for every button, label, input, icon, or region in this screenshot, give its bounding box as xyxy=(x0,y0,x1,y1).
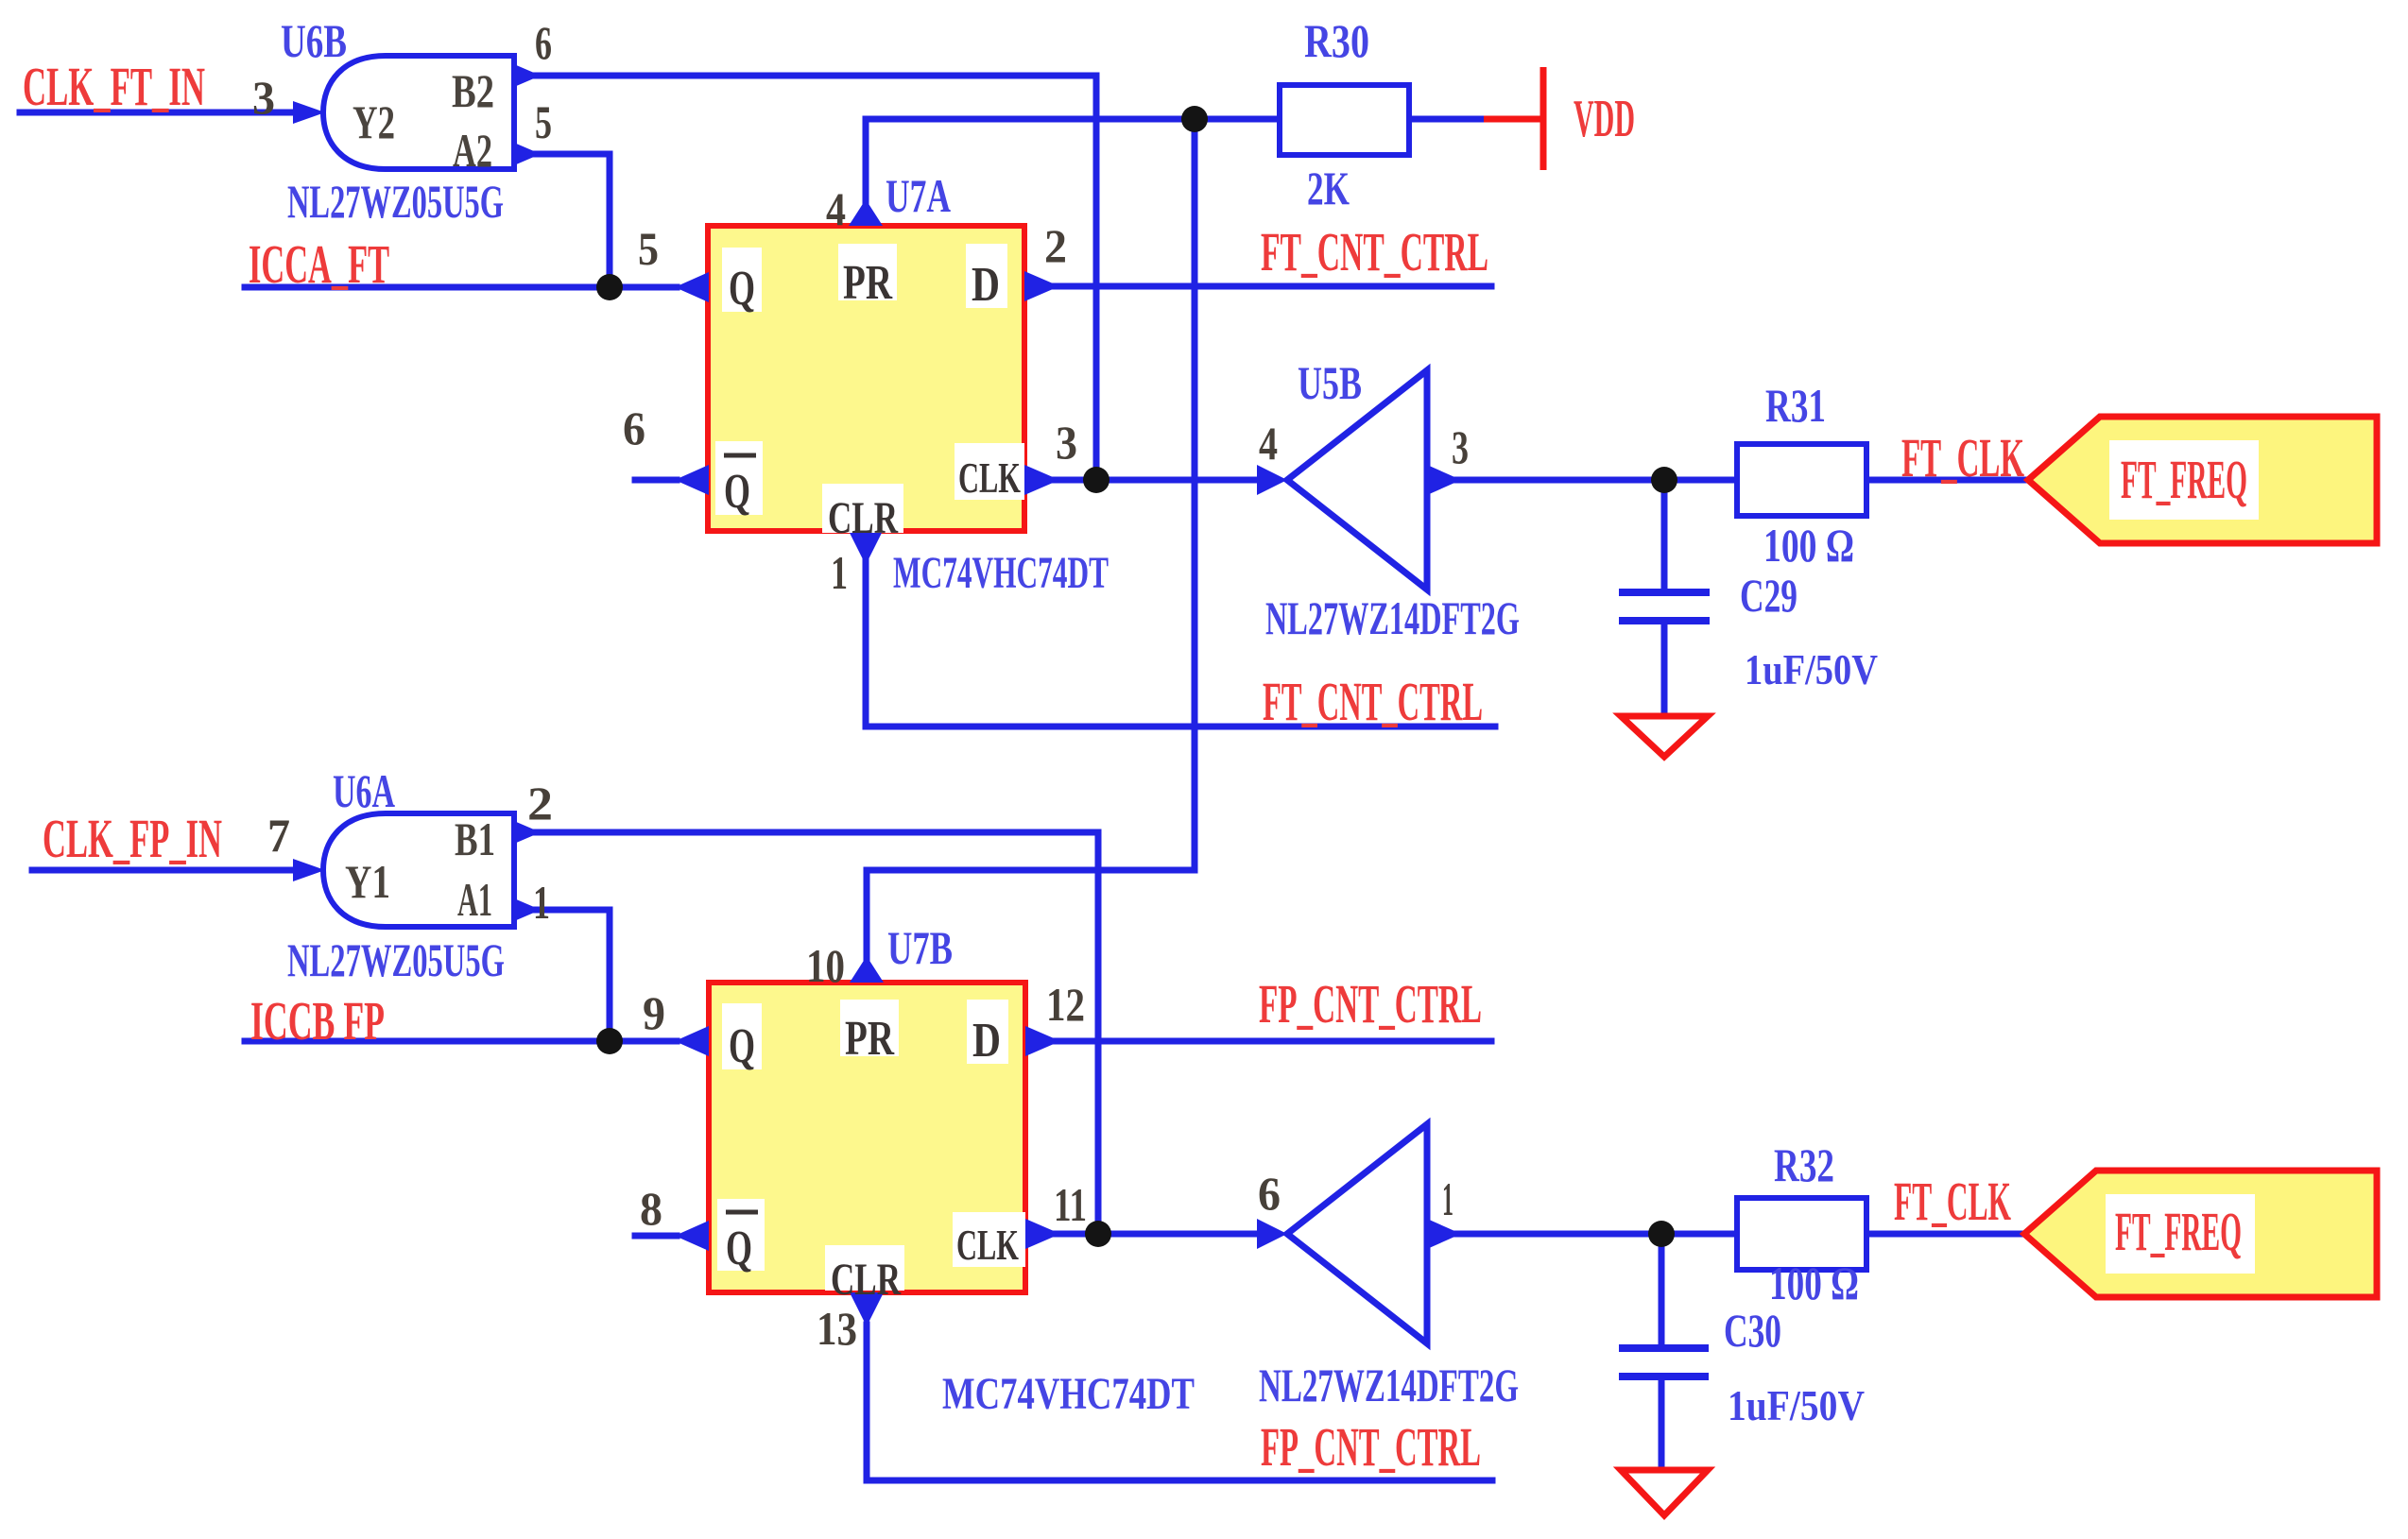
svg-text:1: 1 xyxy=(831,546,848,599)
svg-text:D: D xyxy=(972,1014,1001,1068)
svg-text:U6A: U6A xyxy=(333,764,395,817)
svg-text:6: 6 xyxy=(1258,1167,1281,1220)
svg-text:2: 2 xyxy=(527,777,553,829)
svg-text:CLK: CLK xyxy=(956,1221,1019,1269)
svg-text:U5B: U5B xyxy=(1298,356,1362,409)
svg-text:ICCB FP: ICCB FP xyxy=(250,990,385,1052)
svg-text:5: 5 xyxy=(638,222,659,275)
svg-text:100 Ω: 100 Ω xyxy=(1763,519,1854,572)
svg-text:2K: 2K xyxy=(1307,162,1350,214)
svg-text:B2: B2 xyxy=(452,64,494,117)
svg-text:FT_FREQ: FT_FREQ xyxy=(2115,1201,2242,1262)
svg-text:C30: C30 xyxy=(1724,1304,1781,1357)
svg-text:3: 3 xyxy=(1056,416,1077,469)
svg-text:Q: Q xyxy=(726,1222,752,1275)
svg-text:MC74VHC74DT: MC74VHC74DT xyxy=(942,1369,1195,1419)
svg-text:2: 2 xyxy=(1044,219,1067,272)
svg-text:Y2: Y2 xyxy=(353,95,395,148)
svg-text:11: 11 xyxy=(1054,1178,1087,1231)
svg-text:3: 3 xyxy=(1452,420,1469,473)
svg-text:C29: C29 xyxy=(1740,569,1797,622)
svg-text:R30: R30 xyxy=(1304,14,1369,67)
svg-text:FT_CLK: FT_CLK xyxy=(1894,1171,2011,1232)
svg-text:1: 1 xyxy=(1442,1172,1453,1225)
svg-text:PR: PR xyxy=(845,1012,895,1066)
svg-text:R31: R31 xyxy=(1765,379,1826,432)
svg-text:CLK_FT_IN: CLK_FT_IN xyxy=(23,56,205,117)
svg-text:CLK: CLK xyxy=(958,453,1021,502)
svg-text:6: 6 xyxy=(535,16,552,69)
svg-text:U7A: U7A xyxy=(886,169,951,222)
svg-text:100 Ω: 100 Ω xyxy=(1769,1257,1859,1309)
svg-text:R32: R32 xyxy=(1774,1138,1834,1191)
svg-text:VDD: VDD xyxy=(1574,90,1635,148)
svg-text:B1: B1 xyxy=(455,812,495,865)
svg-text:FT_CLK: FT_CLK xyxy=(1901,427,2024,488)
svg-text:7: 7 xyxy=(267,809,290,862)
svg-text:FP_CNT_CTRL: FP_CNT_CTRL xyxy=(1259,973,1482,1035)
svg-text:NL27WZ14DFT2G: NL27WZ14DFT2G xyxy=(1259,1359,1519,1411)
svg-text:4: 4 xyxy=(826,182,846,235)
svg-text:CLK_FP_IN: CLK_FP_IN xyxy=(43,808,222,869)
svg-text:10: 10 xyxy=(806,939,845,992)
svg-text:1uF/50V: 1uF/50V xyxy=(1728,1381,1865,1429)
svg-text:8: 8 xyxy=(640,1182,662,1235)
svg-text:NL27WZ05U5G: NL27WZ05U5G xyxy=(287,933,505,986)
svg-text:Q: Q xyxy=(729,262,755,316)
svg-text:NL27WZ05U5G: NL27WZ05U5G xyxy=(287,175,504,228)
svg-text:1uF/50V: 1uF/50V xyxy=(1745,645,1878,693)
svg-text:A2: A2 xyxy=(453,124,492,177)
svg-text:FP_CNT_CTRL: FP_CNT_CTRL xyxy=(1261,1416,1481,1478)
svg-text:U6B: U6B xyxy=(281,14,347,67)
svg-text:D: D xyxy=(972,258,1000,312)
svg-text:Q: Q xyxy=(724,465,750,519)
svg-text:9: 9 xyxy=(643,986,665,1039)
svg-text:NL27WZ14DFT2G: NL27WZ14DFT2G xyxy=(1265,591,1520,644)
svg-text:CLR: CLR xyxy=(831,1255,902,1305)
svg-text:FT_CNT_CTRL: FT_CNT_CTRL xyxy=(1261,221,1488,282)
svg-text:Q: Q xyxy=(729,1019,755,1073)
svg-text:6: 6 xyxy=(623,402,645,454)
svg-text:FT_CNT_CTRL: FT_CNT_CTRL xyxy=(1263,671,1483,732)
svg-text:13: 13 xyxy=(817,1302,857,1355)
svg-text:PR: PR xyxy=(843,256,893,310)
svg-text:4: 4 xyxy=(1259,417,1278,470)
svg-text:ICCA_FT: ICCA_FT xyxy=(249,233,389,295)
svg-text:MC74VHC74DT: MC74VHC74DT xyxy=(893,548,1109,598)
svg-text:Y1: Y1 xyxy=(345,855,390,908)
svg-text:CLR: CLR xyxy=(828,493,899,543)
svg-text:U7B: U7B xyxy=(887,921,953,974)
svg-text:1: 1 xyxy=(533,876,550,929)
svg-text:12: 12 xyxy=(1046,978,1085,1031)
svg-text:A1: A1 xyxy=(457,873,492,926)
svg-text:5: 5 xyxy=(535,95,552,148)
svg-text:3: 3 xyxy=(252,71,275,124)
svg-text:FT_FREQ: FT_FREQ xyxy=(2121,449,2247,510)
